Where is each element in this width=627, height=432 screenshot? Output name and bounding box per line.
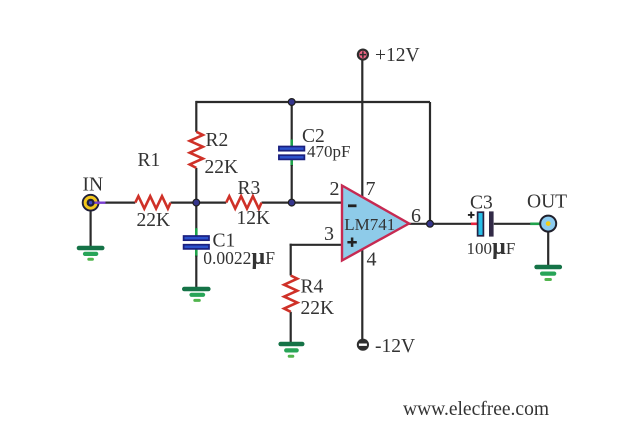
wire R4 to ground — [290, 312, 292, 343]
-12V terminal — [357, 339, 369, 351]
svg-text:www.elecfree.com: www.elecfree.com — [403, 399, 549, 420]
resistor R4 — [284, 276, 297, 312]
capacitor C1 — [184, 236, 209, 249]
wire C3 to OUT — [494, 223, 531, 225]
svg-text:4: 4 — [367, 249, 377, 271]
node A junction — [193, 199, 200, 206]
svg-text:R3: R3 — [238, 178, 261, 199]
wire C2 bottom lead — [291, 165, 293, 203]
wire top feedback horizontal — [196, 101, 430, 103]
wire C1 top lead — [195, 203, 197, 230]
+12V terminal — [358, 50, 368, 60]
svg-text:3: 3 — [324, 223, 334, 245]
wire op-amp output to node — [408, 223, 430, 225]
wire C1 bottom green stub — [195, 249, 198, 257]
svg-text:22K: 22K — [301, 298, 335, 319]
svg-text:R4: R4 — [301, 277, 324, 298]
wire C2 top lead — [291, 101, 293, 141]
svg-text:470pF: 470pF — [307, 142, 350, 161]
node output junction — [427, 220, 434, 227]
svg-text:+12V: +12V — [375, 45, 420, 66]
wire node to C3 — [430, 223, 472, 225]
wire C1 to ground — [195, 256, 197, 288]
resistor R2 — [190, 132, 203, 168]
svg-text:12K: 12K — [237, 208, 271, 229]
wire OUT terminal to ground — [547, 229, 549, 266]
wire R3 to node B — [262, 202, 292, 204]
wire OUT green stub — [530, 223, 540, 226]
wire C3 red stub — [471, 223, 477, 226]
svg-text:R1: R1 — [138, 150, 161, 171]
svg-text:6: 6 — [411, 205, 421, 227]
svg-text:7: 7 — [366, 178, 376, 200]
wire R1 to node A — [171, 202, 197, 204]
wire feedback vertical — [429, 102, 431, 224]
wire node A to R3 — [196, 202, 226, 204]
svg-text:R2: R2 — [206, 130, 229, 151]
capacitor C2 — [279, 147, 305, 160]
wire R2 top lead — [195, 101, 197, 132]
svg-text:22K: 22K — [137, 210, 171, 231]
op-amp non-inverting input plus symbol — [347, 238, 356, 247]
op-amp inverting input minus symbol — [348, 204, 357, 207]
ground IN — [79, 248, 102, 259]
op-amp U1 LM741 — [342, 186, 409, 261]
wire pin 4 to -12V — [361, 249, 363, 340]
OUT terminal — [540, 216, 556, 232]
wire node B to pin 2 — [292, 202, 343, 204]
ground C1 — [184, 289, 208, 300]
resistor R3 — [226, 196, 261, 208]
IN terminal — [83, 195, 106, 211]
svg-text:LM741: LM741 — [344, 215, 395, 234]
svg-text:0.0022µF: 0.0022µF — [203, 244, 275, 270]
capacitor C3 — [468, 211, 494, 236]
ground OUT — [537, 267, 560, 280]
node C2 top junction — [288, 99, 295, 106]
wire C2 top green stub — [290, 140, 293, 147]
wire R2 bottom lead — [195, 168, 197, 203]
ground R4 — [281, 344, 303, 356]
wire pin 3 down to R4 — [290, 244, 292, 276]
svg-text:C3: C3 — [470, 192, 493, 213]
svg-text:22K: 22K — [205, 157, 239, 178]
wire IN terminal to ground — [89, 208, 91, 247]
svg-text:2: 2 — [330, 178, 340, 200]
wire C1 top green stub — [195, 228, 198, 236]
svg-text:-12V: -12V — [375, 336, 415, 357]
wire pin 7 to +12V — [361, 60, 363, 198]
node B junction — [288, 199, 295, 206]
resistor R1 — [135, 196, 170, 208]
wire C2 bottom green stub — [290, 159, 293, 166]
svg-text:IN: IN — [83, 175, 104, 196]
wire pin 3 horizontal — [290, 244, 343, 246]
wire IN to R1 — [105, 202, 136, 204]
svg-text:OUT: OUT — [527, 191, 567, 212]
